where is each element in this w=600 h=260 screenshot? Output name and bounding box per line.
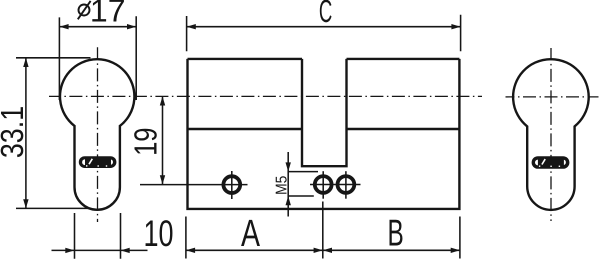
svg-text:A: A — [241, 213, 261, 255]
arrow C left — [187, 24, 196, 29]
svg-text:17: 17 — [90, 0, 126, 29]
right profile cylinder outline — [513, 59, 589, 210]
svg-text:10: 10 — [143, 213, 173, 254]
svg-text:C: C — [319, 0, 332, 29]
svg-text:33.1: 33.1 — [0, 106, 30, 158]
arrow A left — [186, 248, 195, 253]
centerline main horizontal axis — [49, 95, 482, 97]
svg-text:M5: M5 — [274, 175, 291, 194]
body rectangle (side view) — [188, 59, 460, 209]
arrow A right — [314, 248, 323, 253]
arrow 33.1 top — [23, 58, 28, 67]
hole H1 (fixing screw hole left) — [223, 176, 240, 193]
dim C extension lines — [187, 15, 461, 52]
dim 19 line — [162, 96, 164, 184]
arrow 10 right (outside pointing left) — [121, 248, 130, 253]
arrow M5 top (outside pointing down) — [286, 162, 291, 171]
arrow M5 bottom (outside pointing up) — [286, 196, 291, 205]
cam notch — [302, 59, 347, 166]
crosshair hole H2 vertical — [322, 171, 324, 199]
keyhole right (black stadium with key profile) — [532, 156, 570, 169]
hole H3 (cam hole right) — [338, 176, 355, 193]
svg-text:19: 19 — [128, 127, 164, 155]
dim d17 line — [59, 26, 136, 28]
dim A B line — [186, 249, 460, 251]
arrow C right — [451, 24, 460, 29]
crosshair hole H3 vertical — [345, 171, 347, 199]
keyhole left (black stadium with key profile) — [79, 156, 117, 168]
arrow 19 top — [160, 96, 165, 105]
dim d17 extension lines — [59, 16, 136, 100]
arrow B left — [323, 248, 332, 253]
dim 19 bottom extension line — [140, 184, 248, 186]
body step line — [188, 128, 460, 130]
crosshair hole H1 vertical — [231, 171, 233, 199]
arrow d17 right — [127, 24, 136, 29]
arrow B right — [451, 248, 460, 253]
centerline right profile horizontal — [506, 96, 599, 98]
dim A B extension lines — [186, 202, 460, 259]
label d17 symbol — [78, 1, 91, 19]
centerline right profile vertical — [550, 48, 552, 221]
arrow 10 left (outside pointing right) — [65, 248, 74, 253]
arrow 19 bottom — [160, 175, 165, 184]
dim C line — [187, 26, 461, 28]
crosshair holes H2 H3 horizontal — [310, 184, 361, 186]
dim 10 extension lines — [75, 213, 121, 259]
dim M5 line — [287, 152, 289, 217]
svg-text:B: B — [388, 212, 404, 254]
centerline left profile vertical — [97, 47, 99, 222]
dim M5 leader lines — [288, 172, 318, 196]
dim 33.1 extension lines — [16, 58, 91, 209]
dim 33.1 line — [25, 58, 27, 209]
dim 10 line with outside tails — [52, 249, 148, 251]
arrow d17 left — [59, 24, 68, 29]
arrow 33.1 bottom — [23, 199, 28, 208]
left profile cylinder outline — [60, 59, 134, 210]
hole H2 (cam hole left) — [315, 176, 332, 193]
